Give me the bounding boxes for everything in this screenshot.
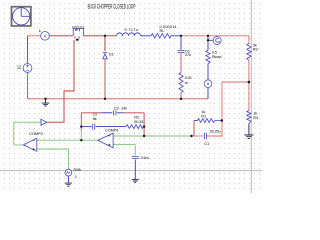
svg-text:Rload: Rload <box>212 54 221 59</box>
svg-text:A: A <box>44 33 47 38</box>
svg-text:COMP3: COMP3 <box>29 131 43 136</box>
svg-text:BUCK CHOPPER CLOSED LOOP: BUCK CHOPPER CLOSED LOOP <box>88 3 136 11</box>
svg-text:MOS1: MOS1 <box>72 24 85 29</box>
svg-text:6k: 6k <box>93 116 97 121</box>
svg-text:COMP4: COMP4 <box>105 127 119 132</box>
svg-text:50.33: 50.33 <box>134 119 144 124</box>
svg-text:24n: 24n <box>121 106 127 111</box>
svg-text:A: A <box>207 81 210 86</box>
svg-text:0.717u: 0.717u <box>125 27 139 32</box>
svg-text:200k: 200k <box>73 167 81 172</box>
svg-text:26.25u: 26.25u <box>210 129 221 134</box>
svg-text:2.6m: 2.6m <box>141 155 150 160</box>
svg-text:47u: 47u <box>185 52 191 57</box>
